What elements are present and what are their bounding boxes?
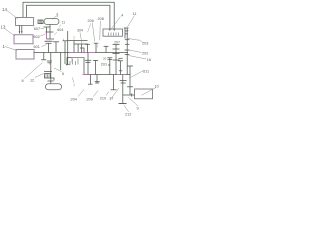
svg-text:209: 209 bbox=[87, 98, 93, 102]
gearbox drop bbox=[83, 65, 85, 75]
input stack bar B bbox=[46, 31, 54, 33]
gear x127 bars bbox=[125, 39, 130, 41]
input stack bar C bbox=[47, 38, 55, 40]
leader 607 bbox=[41, 28, 45, 30]
output drop x50.8 bbox=[50, 53, 52, 85]
motor 3 stadium bbox=[44, 19, 59, 25]
gearbox housing lower bbox=[67, 58, 84, 66]
leader 4 bbox=[112, 17, 121, 29]
box 1 bbox=[16, 50, 34, 60]
box 13 bbox=[14, 35, 33, 44]
arrow pair 14-13 bbox=[19, 26, 21, 34]
clutch stack x116 bbox=[113, 45, 120, 75]
leader 304 bbox=[80, 33, 82, 45]
long vertical x67.7 bbox=[67, 31, 69, 65]
leader 17 bbox=[110, 88, 119, 100]
box 10 bbox=[135, 89, 153, 99]
svg-text:212: 212 bbox=[125, 113, 131, 117]
pink wire x74 bbox=[73, 36, 75, 41]
leader 11 bbox=[128, 16, 135, 28]
svg-text:601: 601 bbox=[34, 45, 40, 49]
leader 6 bbox=[54, 68, 62, 72]
bracket inner vertical a bbox=[77, 44, 79, 53]
leader 208 bbox=[99, 21, 102, 41]
vertical x130 bbox=[129, 66, 131, 95]
pink tick x63.4 bbox=[62, 39, 64, 41]
input stack bar A bbox=[44, 26, 51, 28]
arrowheads wires into box4 bbox=[109, 29, 111, 32]
leader 202 bbox=[127, 50, 142, 53]
gear T x87.5 bbox=[85, 43, 90, 45]
box4 inner ticks bbox=[109, 33, 119, 36]
svg-text:12: 12 bbox=[30, 79, 34, 83]
gear G1 under stack bbox=[45, 40, 53, 42]
wire top inner bbox=[27, 5, 110, 29]
svg-text:16: 16 bbox=[147, 58, 151, 62]
leader 7 bbox=[72, 78, 74, 84]
below-shaft gear x90.6 bbox=[90, 75, 92, 85]
leader 13 bbox=[5, 29, 16, 37]
leader 3 bbox=[53, 16, 57, 20]
leader 206 bbox=[92, 23, 94, 42]
leader 212 bbox=[124, 105, 129, 112]
svg-text:3: 3 bbox=[56, 13, 59, 18]
leader 16 bbox=[129, 56, 147, 60]
svg-text:208: 208 bbox=[98, 17, 104, 21]
gear x43.8 below main bbox=[43, 53, 45, 60]
input stack vertical 1 bbox=[46, 27, 48, 39]
svg-text:204: 204 bbox=[71, 98, 77, 102]
leader 12 bbox=[35, 74, 44, 78]
link to box 10 bbox=[123, 94, 135, 96]
shaft coupling hatch bbox=[38, 20, 43, 24]
svg-text:10: 10 bbox=[155, 84, 159, 88]
svg-text:6: 6 bbox=[62, 72, 64, 76]
leader 209 bbox=[94, 91, 99, 97]
stepped leader 203 bbox=[128, 38, 143, 43]
svg-text:202: 202 bbox=[142, 52, 148, 56]
web x88 between shafts bbox=[87, 53, 89, 75]
svg-text:210: 210 bbox=[100, 97, 106, 101]
gear T x96 bbox=[94, 42, 99, 44]
bracket inner vertical b bbox=[81, 44, 83, 53]
gear x95.6 bbox=[95, 60, 97, 74]
input stack vertical 2 bbox=[49, 25, 51, 40]
small step bracket bbox=[80, 48, 84, 53]
web x120.4 bbox=[119, 61, 121, 75]
leader 9 bbox=[129, 98, 139, 107]
leader 14 bbox=[7, 11, 18, 20]
leader 10 bbox=[142, 88, 157, 96]
svg-text:11: 11 bbox=[133, 12, 137, 16]
motor 5 stadium bbox=[45, 84, 61, 90]
clutch 11 element bbox=[124, 28, 129, 75]
below-shaft column x113.5 bbox=[113, 75, 115, 90]
wire top outer bbox=[23, 2, 114, 29]
gear T x106 bbox=[104, 45, 109, 47]
leader 210 bbox=[106, 92, 109, 96]
svg-text:11: 11 bbox=[62, 21, 66, 25]
svg-text:14: 14 bbox=[2, 7, 7, 12]
lower-left gear L with hatch bbox=[44, 72, 54, 82]
bracket top y44 bbox=[74, 44, 88, 53]
ground bar 212 bbox=[119, 103, 127, 105]
web x109.8 bbox=[109, 58, 111, 75]
leader 1 bbox=[5, 47, 17, 51]
lower shaft bbox=[84, 74, 131, 76]
web x65 upper bbox=[64, 41, 66, 64]
svg-text:201: 201 bbox=[101, 62, 107, 66]
svg-text:207: 207 bbox=[114, 41, 120, 45]
leader 602 bbox=[41, 34, 46, 36]
svg-text:602: 602 bbox=[34, 35, 40, 39]
bar x127 y54.5 bbox=[125, 54, 130, 56]
tick x131.7 bbox=[131, 93, 133, 96]
svg-text:304: 304 bbox=[77, 29, 83, 33]
box 14 bbox=[16, 18, 34, 26]
svg-text:8: 8 bbox=[22, 79, 24, 83]
leader 601 bbox=[42, 45, 47, 47]
svg-text:9: 9 bbox=[137, 107, 139, 111]
svg-text:604: 604 bbox=[57, 28, 63, 32]
svg-text:4: 4 bbox=[121, 14, 123, 18]
main shaft bbox=[34, 52, 128, 54]
bottom cap x67.7 bbox=[66, 63, 70, 65]
web x56 upper bbox=[55, 42, 57, 53]
horizontal y40.5 bbox=[68, 40, 88, 42]
vertical x74 upper bbox=[73, 41, 75, 45]
ground column x122.8 bbox=[122, 75, 124, 104]
web x60.7 below main bbox=[60, 53, 62, 71]
below-shaft gear x97 bbox=[96, 75, 98, 83]
svg-text:607: 607 bbox=[34, 27, 40, 31]
leader 11 small bbox=[59, 25, 61, 28]
leader 604 bbox=[54, 32, 57, 35]
svg-text:20: 20 bbox=[103, 56, 107, 60]
leader 611 bbox=[131, 71, 143, 78]
svg-text:7: 7 bbox=[73, 84, 75, 88]
svg-text:611: 611 bbox=[143, 70, 149, 74]
box 4 bbox=[103, 29, 123, 36]
svg-text:203: 203 bbox=[142, 42, 148, 46]
leader 8 bbox=[25, 63, 43, 79]
main shaft magenta tinge bbox=[70, 51, 95, 53]
svg-text:206: 206 bbox=[88, 19, 94, 23]
leader 206b bbox=[88, 23, 91, 32]
lower shaft magenta segment bbox=[82, 74, 92, 76]
gear caps x50.8 bbox=[47, 60, 52, 62]
leader 204 bbox=[78, 90, 84, 97]
